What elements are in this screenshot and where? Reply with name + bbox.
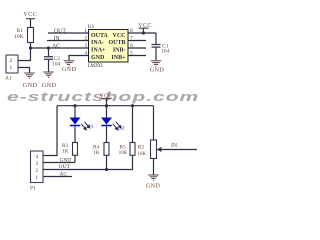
svg-text:GND: GND — [150, 66, 165, 73]
resistor R4 — [104, 143, 109, 156]
wire rail to R5 — [132, 106, 134, 143]
svg-text:INA+: INA+ — [91, 48, 106, 54]
wire R1 to AC node — [30, 43, 32, 49]
svg-text:GND: GND — [60, 157, 72, 163]
svg-text:LM393: LM393 — [88, 64, 104, 69]
node R4 on OUT line — [105, 168, 108, 171]
svg-text:INB+: INB+ — [111, 55, 126, 61]
wire rail to R2 pot — [153, 106, 155, 140]
svg-text:104: 104 — [52, 62, 61, 68]
svg-text:VCC: VCC — [138, 23, 152, 29]
wire R4 to OUT line — [106, 155, 108, 169]
svg-text:IN: IN — [171, 143, 178, 149]
node R5 on rail — [131, 104, 134, 107]
wire IN to pot wiper — [160, 149, 197, 151]
pin numbers U1 left — [85, 29, 88, 57]
ground C1 — [151, 61, 162, 66]
wire node to A1 pin2 — [18, 48, 31, 61]
wire A1 pin1 to ground — [18, 68, 30, 73]
ground A1 pin1 — [24, 73, 35, 78]
potentiometer R2 — [151, 140, 157, 159]
wire net OUT line — [48, 32, 89, 34]
wire D2 anode — [106, 106, 108, 118]
node C2 tap — [47, 46, 50, 49]
resistor R3 — [73, 143, 78, 156]
svg-text:VCC: VCC — [24, 12, 38, 18]
wire net IN line — [47, 40, 89, 42]
ground R2 pot — [148, 175, 159, 180]
svg-text:GND: GND — [62, 66, 77, 73]
wire C2 bottom to ground — [48, 60, 50, 72]
wire R2 pot to ground — [153, 159, 155, 175]
svg-text:VCC: VCC — [100, 93, 113, 99]
wire net OUT line P1 pin2 — [43, 155, 133, 169]
svg-text:GND: GND — [146, 182, 161, 189]
wire net AC line P1 pin1 — [43, 176, 72, 178]
node VCC3/D2 on rail — [105, 104, 108, 107]
power VCC3 — [102, 98, 112, 100]
wire D2 cathode to R4 — [106, 126, 108, 142]
wire VCC1 to R1 — [30, 19, 32, 28]
connector P1 — [31, 151, 44, 183]
svg-text:10K: 10K — [14, 34, 24, 40]
resistor R1 — [28, 28, 34, 43]
wire U1 pin8 to VCC and C1 — [128, 32, 156, 34]
resistor R5 — [130, 143, 135, 156]
connector A1 — [6, 55, 18, 73]
svg-text:R2: R2 — [138, 144, 145, 150]
svg-text:A1: A1 — [5, 76, 12, 82]
pin numbers U1 right — [130, 29, 133, 57]
node R1/A1/AC junction — [29, 46, 32, 49]
wire rail to P1 pin4 — [43, 106, 57, 156]
svg-text:VCC: VCC — [113, 33, 126, 39]
wire D1 cathode to R3 — [74, 126, 76, 142]
wire VCC2 drop — [142, 28, 144, 33]
svg-text:OUT: OUT — [59, 164, 71, 170]
svg-text:R5: R5 — [120, 144, 127, 150]
power VCC2 — [139, 27, 149, 29]
svg-text:OUT: OUT — [54, 28, 66, 34]
svg-text:AC: AC — [60, 171, 68, 177]
svg-text:U1: U1 — [88, 24, 95, 30]
svg-text:10K: 10K — [119, 151, 128, 156]
svg-text:IN: IN — [54, 36, 61, 42]
svg-text:INB-: INB- — [113, 48, 126, 54]
capacitor C1 — [152, 45, 161, 48]
ground C2 — [43, 72, 54, 77]
wire U1 pin4 to ground — [69, 56, 89, 61]
wire net GND line P1 pin3 — [43, 162, 75, 164]
svg-text:2: 2 — [10, 58, 13, 64]
LED D1 — [70, 118, 81, 125]
svg-text:INA-: INA- — [91, 40, 104, 46]
junction node dots — [29, 31, 145, 171]
node VCC2 on pin8 — [142, 31, 145, 34]
svg-text:1K: 1K — [93, 150, 100, 156]
wire D1 anode — [74, 106, 76, 118]
wire C2 top — [48, 48, 50, 56]
wire U1 pin6 stub — [128, 47, 146, 49]
wire U1 pin5 stub — [128, 55, 146, 57]
wire net AC line — [31, 47, 89, 49]
wire VCC3 drop — [106, 99, 108, 106]
svg-text:GND: GND — [42, 82, 57, 89]
wire VCC rail bottom — [57, 105, 154, 107]
node D1 on rail — [73, 104, 76, 107]
wire R3 to GND line — [74, 155, 76, 162]
svg-text:104: 104 — [161, 49, 170, 55]
wire U1 pin7 stub — [128, 40, 146, 42]
ground U1 pin4 — [64, 61, 75, 66]
svg-text:GND: GND — [23, 82, 38, 89]
svg-text:OUTB: OUTB — [108, 40, 125, 46]
svg-text:AC: AC — [52, 43, 60, 49]
wire C1 bottom to ground — [155, 47, 157, 60]
wire C1 top — [155, 33, 157, 44]
svg-text:P1: P1 — [30, 186, 36, 192]
svg-text:1K: 1K — [62, 149, 69, 155]
svg-text:GND: GND — [91, 55, 105, 61]
svg-text:1: 1 — [10, 65, 13, 71]
svg-text:OUTA: OUTA — [91, 33, 109, 39]
svg-text:10K: 10K — [137, 152, 146, 157]
svg-text:D2: D2 — [118, 126, 125, 132]
capacitor C2 — [44, 57, 53, 60]
op-amp U1 LM393 — [89, 30, 129, 63]
power VCC1 — [26, 18, 35, 20]
svg-text:D1: D1 — [87, 124, 94, 130]
LED D2 — [101, 118, 112, 125]
